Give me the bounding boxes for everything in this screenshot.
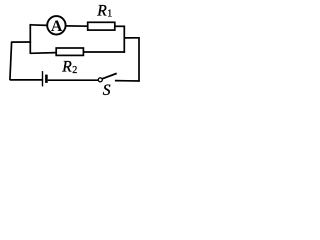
wire: ammeter branch left segment bbox=[30, 24, 48, 27]
battery (cell) bbox=[43, 71, 47, 86]
wire: right outer vertical bbox=[138, 38, 140, 82]
wire: R2 branch left segment bbox=[30, 52, 56, 55]
resistor R1 bbox=[88, 22, 115, 30]
wire: left junction vertical (node between branches) bbox=[29, 24, 31, 54]
wire: ammeter to R1 bbox=[66, 25, 88, 27]
svg-text:R: R bbox=[61, 58, 72, 75]
wire: right junction vertical (node between branches) bbox=[123, 26, 125, 53]
ammeter A bbox=[47, 16, 65, 35]
wire: bottom right segment from switch bbox=[115, 80, 140, 82]
wire: left outer top horizontal to junction bbox=[11, 41, 31, 43]
wire: R2 right lead to right junction bbox=[83, 51, 125, 53]
svg-text:S: S bbox=[103, 82, 111, 98]
wire: bottom left segment to battery bbox=[10, 79, 42, 81]
switch S bbox=[98, 73, 116, 81]
svg-text:2: 2 bbox=[72, 65, 77, 76]
wire: bottom middle segment battery to switch bbox=[48, 79, 98, 81]
wire: R1 exit to right junction bbox=[115, 25, 125, 27]
svg-text:R: R bbox=[96, 3, 107, 20]
svg-text:A: A bbox=[51, 18, 63, 35]
resistor R2 bbox=[56, 48, 83, 55]
wire: left outer vertical bbox=[10, 42, 12, 80]
svg-text:1: 1 bbox=[107, 8, 112, 19]
wire: right jog horizontal bbox=[124, 37, 140, 39]
